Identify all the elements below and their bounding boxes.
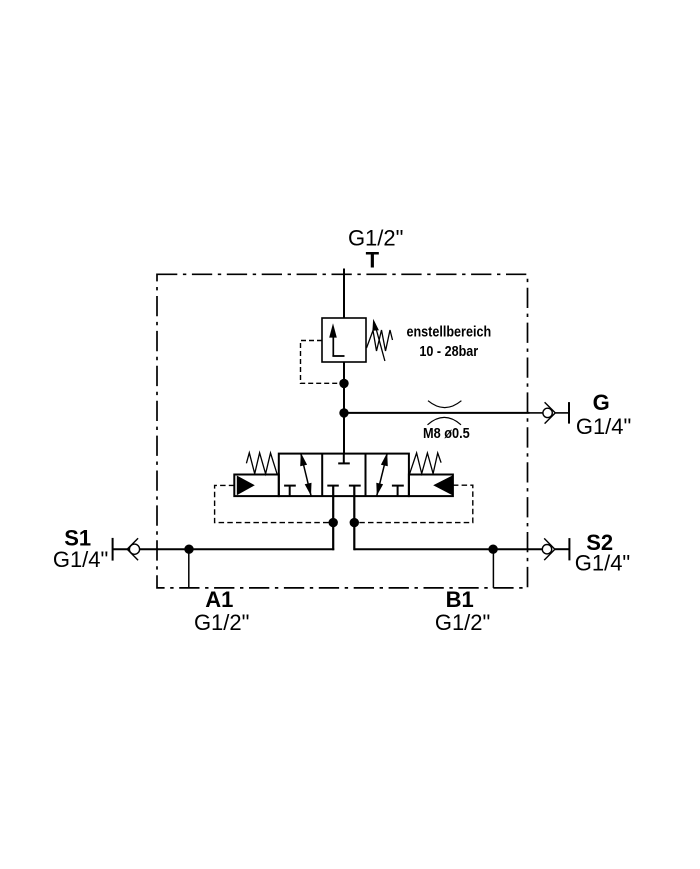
directional valve right position blocked port <box>392 486 404 497</box>
svg-text:A1: A1 <box>205 587 233 612</box>
junction dot B1 <box>488 545 497 554</box>
wire S1 work line <box>113 548 129 550</box>
relief valve V1 body <box>322 318 366 362</box>
directional valve centre position blocked port A <box>327 485 339 487</box>
directional valve centre position blocked port B <box>349 485 361 487</box>
svg-text:G1/2": G1/2" <box>435 610 491 635</box>
wire B stem (valve to work line) <box>353 486 355 551</box>
svg-text:enstellbereich: enstellbereich <box>406 322 491 339</box>
junction node dot 1 <box>339 379 348 388</box>
svg-text:G1/4": G1/4" <box>575 551 631 576</box>
wire S2 work line <box>354 548 542 550</box>
svg-text:G: G <box>593 390 610 415</box>
relief valve V1 adjustment arrow <box>372 319 385 361</box>
junction node dot 2 (G branch) <box>339 408 348 417</box>
directional valve left position flow arrow <box>300 453 311 496</box>
wire A1 drop line <box>188 549 190 588</box>
wire A stem (valve to work line) <box>332 486 334 551</box>
wire relief valve to directional valve <box>343 362 345 454</box>
pilot triangle right (hydraulic pilot) <box>433 476 452 496</box>
port S1 check coupling symbol <box>113 538 140 561</box>
svg-text:T: T <box>366 247 380 272</box>
pilot box right <box>409 475 453 497</box>
orifice M8 (restriction arcs) <box>428 401 461 408</box>
pilot line loop (dashed) <box>215 485 334 522</box>
svg-text:G1/4": G1/4" <box>576 414 632 439</box>
directional valve right position flow arrow <box>376 453 388 496</box>
relief valve V1 flow arrow <box>329 323 344 356</box>
relief valve V1 pilot line (dashed) <box>301 341 342 384</box>
svg-text:G1/2": G1/2" <box>194 610 250 635</box>
directional valve centre position blocked T port <box>338 454 350 464</box>
wire G branch line <box>344 412 530 414</box>
svg-text:10 - 28bar: 10 - 28bar <box>419 342 478 359</box>
enclosure boundary (dash-dot subplate outline) <box>157 274 528 588</box>
wire T port to relief valve <box>343 269 345 319</box>
wire B1 drop line <box>492 549 494 588</box>
directional valve D1 main boxes <box>279 454 409 497</box>
svg-text:G1/4": G1/4" <box>53 547 109 572</box>
pilot line loop right (dashed) <box>354 485 473 522</box>
junction dot A1 <box>184 545 193 554</box>
spring right <box>410 453 441 474</box>
svg-text:B1: B1 <box>446 587 474 612</box>
junction dot pilot A <box>329 518 338 527</box>
directional valve left position blocked port <box>284 486 296 497</box>
junction dot pilot B <box>350 518 359 527</box>
relief valve V1 adjustable spring <box>367 330 393 351</box>
port G check coupling symbol <box>543 402 569 424</box>
port S2 check coupling symbol <box>542 538 569 560</box>
pilot box left <box>234 475 278 497</box>
pilot triangle left (hydraulic pilot) <box>237 476 255 496</box>
svg-text:M8 ø0.5: M8 ø0.5 <box>423 425 470 441</box>
spring left <box>246 453 277 474</box>
